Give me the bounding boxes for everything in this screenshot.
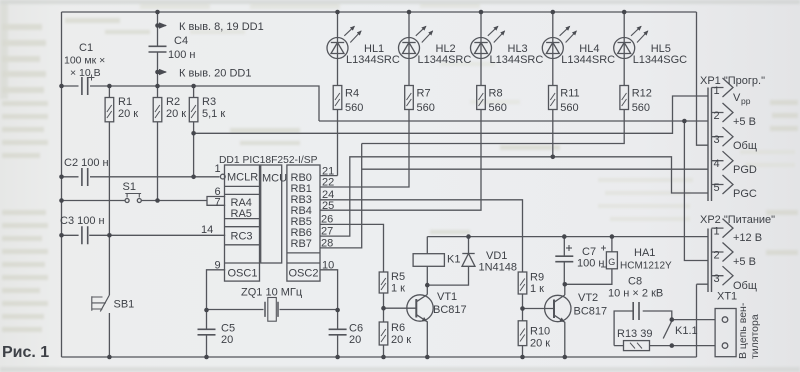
svg-text:100 н: 100 н [168, 49, 195, 61]
wire HL3 column [480, 12, 482, 86]
svg-text:RC3: RC3 [231, 231, 253, 243]
node C3 row junctions [59, 233, 64, 238]
svg-text:560: 560 [632, 102, 650, 114]
node +12V rail junctions [466, 234, 471, 239]
resistor R8 [477, 86, 486, 110]
connector XP1 pin5 [712, 175, 734, 194]
resistor R4 [333, 86, 342, 110]
svg-text:PGD: PGD [733, 164, 757, 176]
wire branch to pins 8,19 DD1 [158, 25, 167, 27]
node C2 row junctions [59, 175, 64, 180]
wire C7 top [563, 237, 565, 256]
svg-text:R9: R9 [530, 272, 544, 284]
wire C2 row / MCLR row [62, 176, 220, 178]
svg-text:28: 28 [321, 238, 333, 250]
svg-text:560: 560 [489, 102, 507, 114]
wire PGC net pin27 riser and run to XP1 pin5 [320, 157, 708, 236]
svg-text:HA1: HA1 [634, 247, 655, 259]
resistor R12 [620, 86, 629, 110]
wire Общ right vertical from top rail to XP1 pin3 [697, 12, 709, 145]
svg-text:R13 39: R13 39 [617, 328, 652, 340]
wire branch to pin 20 DD1 [158, 71, 167, 73]
svg-text:1: 1 [714, 226, 720, 238]
wire R2 column [157, 86, 159, 201]
resistor R9 [518, 272, 527, 294]
transistor VT1 [407, 295, 433, 322]
svg-text:R6: R6 [391, 322, 405, 334]
svg-text:22: 22 [322, 177, 334, 189]
svg-text:SB1: SB1 [114, 299, 135, 311]
svg-text:BC817: BC817 [574, 306, 608, 318]
svg-text:100 мк ×: 100 мк × [64, 55, 105, 67]
svg-text:L1344SRC: L1344SRC [561, 54, 615, 66]
LED HL4 [542, 26, 576, 58]
wire pin26 to R5 column [320, 224, 384, 272]
wire +V row y86 with C1,R1,R2,R3 taps, jog to +5V line [62, 86, 320, 121]
svg-text:27: 27 [321, 226, 333, 238]
wire R4 bottom to pin21 [337, 110, 339, 176]
wire VT2 base [523, 308, 555, 310]
svg-text:L1344SRC: L1344SRC [418, 54, 472, 66]
svg-text:XP2 "Питание": XP2 "Питание" [700, 214, 775, 226]
svg-text:RB7: RB7 [291, 238, 312, 250]
wire K1.1 upper contact to XT1 [672, 319, 715, 321]
svg-text:L1344SGC: L1344SGC [633, 54, 687, 66]
wire R5 R6 base node [383, 293, 385, 322]
svg-text:R7: R7 [417, 88, 431, 100]
svg-text:1 к: 1 к [530, 283, 544, 295]
svg-text:C2 100 н: C2 100 н [64, 157, 109, 169]
relay contact K1.1 [663, 321, 672, 339]
connector XP2 pin1 [712, 219, 734, 238]
svg-text:25: 25 [322, 200, 334, 212]
node VT2 collector C7 HA1 [563, 282, 568, 287]
svg-text:20: 20 [221, 334, 233, 346]
svg-text:7: 7 [215, 197, 221, 209]
svg-text:HCM1212Y: HCM1212Y [620, 261, 672, 272]
svg-text:14: 14 [201, 224, 213, 236]
svg-text:MCLR: MCLR [227, 172, 258, 184]
node K1.1 upper contact [670, 317, 675, 322]
svg-text:2: 2 [714, 250, 720, 262]
svg-text:OSC2: OSC2 [289, 268, 319, 280]
svg-text:S1: S1 [123, 181, 136, 193]
capacitor C6 [329, 329, 347, 335]
svg-text:K1: K1 [447, 254, 460, 266]
resistor R7 [405, 86, 414, 110]
svg-text:Общ: Общ [733, 140, 757, 152]
wire HL5 column [623, 12, 625, 86]
wire R6 bottom [383, 345, 385, 357]
svg-text:3: 3 [714, 273, 720, 285]
svg-text:G: G [608, 257, 615, 267]
wire K1.1 lower contact to XT1 [672, 345, 715, 347]
resistor R10 [518, 321, 527, 346]
wire top ground rail [62, 11, 697, 13]
resistor R11 [549, 86, 558, 110]
wire Vpp line from R3 to XP1 pin1 [194, 96, 708, 133]
svg-text:Рис. 1: Рис. 1 [2, 344, 49, 361]
wire OSC1 pin9 to crystal and C5 [207, 270, 226, 330]
svg-text:C1: C1 [79, 42, 93, 54]
svg-text:560: 560 [560, 102, 578, 114]
wire C4 column [157, 12, 159, 46]
wire PGD net pin28 riser and run to XP1 pin4 [320, 144, 708, 248]
IC DD1 left pin-field column [225, 165, 260, 281]
wire VT2 emitter down [563, 322, 566, 357]
capacitor C5 [198, 329, 216, 335]
svg-text:C8: C8 [628, 276, 642, 288]
svg-text:L1344SRC: L1344SRC [490, 54, 544, 66]
wire K1 bottom to VT1 collector [426, 266, 428, 294]
node +5V to XP2 branch [682, 119, 687, 124]
svg-text:4: 4 [714, 158, 720, 170]
svg-text:560: 560 [345, 102, 363, 114]
svg-text:20 к: 20 к [391, 334, 411, 346]
wire R11 bottom to PGC junction [552, 110, 554, 157]
connector XP1 bars [708, 88, 712, 202]
resistor R6 [379, 322, 388, 345]
wire S1 row from rail to chip pins 6,7 bracket [62, 200, 208, 202]
svg-text:XT1: XT1 [717, 291, 737, 303]
svg-text:560: 560 [417, 102, 435, 114]
svg-text:R3: R3 [202, 96, 216, 108]
svg-text:R12: R12 [632, 88, 652, 100]
buzzer HA1 [601, 246, 617, 269]
wire bottom rail [62, 356, 697, 358]
wire VD1 bottom row [427, 266, 468, 285]
svg-text:V: V [733, 92, 741, 104]
LED HL3 [471, 26, 505, 58]
svg-text:1: 1 [215, 163, 221, 175]
LED HL5 [614, 26, 648, 58]
IC DD1 right pin-field column RB0-RB7 OSC2 [287, 165, 320, 281]
svg-text:VD1: VD1 [486, 250, 507, 262]
svg-text:К выв. 20 DD1: К выв. 20 DD1 [179, 68, 251, 80]
node C4 column taps [155, 23, 160, 28]
resistor R13 [624, 341, 650, 351]
svg-text:+5 В: +5 В [733, 116, 756, 128]
wire VT1 emitter down [425, 321, 428, 357]
connector XP2 pin3 [712, 266, 734, 285]
resistor R2 [153, 98, 162, 122]
node S1 row junctions [59, 198, 64, 203]
svg-text:R11: R11 [560, 88, 579, 100]
wire C7 bottom node row [564, 262, 612, 285]
wire left rail [61, 12, 63, 357]
svg-text:2: 2 [714, 110, 720, 122]
capacitor C4 [149, 46, 167, 52]
svg-text:R4: R4 [345, 88, 359, 100]
svg-text:R8: R8 [489, 88, 503, 100]
svg-text:20: 20 [349, 334, 361, 346]
wire R3 column [193, 86, 195, 177]
svg-text:5,1 к: 5,1 к [202, 108, 225, 120]
wire +5V line to XP1 pin2 [319, 120, 708, 122]
wire R1 column [108, 86, 110, 295]
connector XP2 bars [708, 229, 712, 293]
svg-text:тилятора: тилятора [749, 314, 761, 359]
wire XP2 pin3 Общ down to bottom rail [697, 284, 709, 357]
wire +5V branch down to XP2 pin2 [684, 121, 708, 261]
LED HL2 [399, 26, 433, 58]
svg-text:100 н: 100 н [577, 258, 604, 270]
svg-text:VT1: VT1 [437, 291, 457, 303]
svg-text:В цепь вен-: В цепь вен- [737, 302, 749, 359]
wire VD1 top [468, 237, 470, 254]
svg-text:C4: C4 [174, 35, 188, 47]
wire SB1 column bottom [108, 313, 110, 357]
svg-text:+12 В: +12 В [733, 232, 762, 244]
node VD1 K1 bottom junction [425, 283, 430, 288]
svg-text:DD1 PIC18F252-I/SP: DD1 PIC18F252-I/SP [219, 155, 318, 166]
svg-text:10: 10 [322, 260, 334, 272]
transistor VT2 [545, 295, 571, 322]
svg-text:10 н × 2 кВ: 10 н × 2 кВ [608, 288, 663, 300]
resistor R3 [189, 98, 198, 122]
node bottom rail junctions [107, 355, 112, 360]
wire HL4 column [552, 12, 554, 86]
wire RA4 RA5 bracket [207, 197, 225, 206]
wire R12 bottom left run [362, 110, 625, 144]
wire VT2 collector up to C7 HA1 node [564, 284, 566, 295]
wire HA1 top [611, 237, 613, 252]
wire VT1 base [384, 307, 417, 309]
switch S1 [125, 194, 141, 203]
relay coil K1 [413, 254, 444, 267]
svg-text:20 к: 20 к [118, 108, 138, 120]
svg-text:9: 9 [215, 260, 221, 272]
svg-text:20 к: 20 к [166, 108, 186, 120]
IC DD1 MCLR inversion bubble [220, 174, 225, 179]
svg-text:R5: R5 [391, 271, 405, 283]
crystal ZQ1 [265, 298, 278, 322]
connector XP2 pin2 [712, 243, 734, 262]
svg-text:1N4148: 1N4148 [479, 262, 518, 274]
wire R13 row to contacts [614, 345, 672, 347]
capacitor C3 [82, 226, 88, 244]
node VT2 base [520, 306, 525, 311]
node Vpp R3 junction [191, 131, 196, 136]
svg-text:26: 26 [321, 214, 333, 226]
svg-text:C7: C7 [582, 246, 596, 258]
wire R7 bottom to pin22 [320, 110, 409, 188]
wire K1 top [426, 237, 428, 254]
svg-text:PGC: PGC [733, 188, 757, 200]
svg-text:VT2: VT2 [578, 292, 598, 304]
connector XP1 pin3 [712, 127, 734, 146]
svg-text:5: 5 [714, 182, 720, 194]
wire R8 bottom to pin25 [320, 110, 481, 211]
svg-text:× 10 В: × 10 В [70, 67, 101, 79]
capacitor C1 [82, 75, 95, 96]
svg-text:+5 В: +5 В [733, 256, 756, 268]
wire R10 bottom [522, 346, 524, 357]
svg-text:pp: pp [741, 96, 751, 106]
node top rail junctions [155, 10, 160, 15]
svg-text:3: 3 [714, 134, 720, 146]
svg-text:L1344SRC: L1344SRC [346, 54, 400, 66]
wire ZQ1 row [207, 309, 338, 311]
svg-text:OSC1: OSC1 [228, 268, 258, 280]
wire C8 loop top [614, 311, 672, 346]
push button SB1 [92, 295, 110, 312]
svg-text:1 к: 1 к [391, 283, 405, 295]
wire HL2 column [408, 12, 410, 86]
capacitor C2 [82, 168, 88, 186]
svg-text:R2: R2 [166, 96, 180, 108]
svg-text:C6: C6 [349, 323, 363, 335]
wire pin24 to R9 column VT2 base [320, 200, 523, 272]
node K1.1 lower contact [670, 343, 675, 348]
wire C6 bottom [337, 335, 339, 357]
node y86 row junctions [59, 84, 64, 89]
wire pin21 stub [320, 175, 338, 177]
svg-text:K1.1: K1.1 [675, 325, 698, 337]
wire R9 R10 base node [522, 294, 524, 321]
svg-text:20 к: 20 к [530, 338, 550, 350]
svg-text:RA5: RA5 [231, 208, 252, 220]
resistor R1 [105, 98, 114, 122]
capacitor C8 [633, 302, 639, 320]
svg-text:C5: C5 [221, 323, 235, 335]
svg-text:К выв. 8, 19 DD1: К выв. 8, 19 DD1 [179, 21, 264, 33]
connector XP1 pin1 [712, 78, 734, 97]
wire +12V rail [427, 236, 708, 238]
svg-text:ZQ1 10 МГц: ZQ1 10 МГц [241, 287, 303, 299]
svg-text:1: 1 [714, 85, 720, 97]
diode VD1 [462, 254, 475, 267]
svg-text:R1: R1 [118, 96, 132, 108]
capacitor C7 [555, 256, 573, 262]
node PGC R11 junction [551, 155, 556, 160]
wire C3 row / RC3 pin14 row [62, 234, 226, 236]
connector XP1 pin2 [712, 103, 734, 122]
svg-text:R10: R10 [530, 326, 550, 338]
svg-text:C3 100 н: C3 100 н [60, 215, 105, 227]
svg-text:XP1 "Прогр.": XP1 "Прогр." [700, 75, 765, 87]
terminal block XT1 [715, 309, 736, 357]
LED HL1 [327, 26, 361, 58]
svg-text:MCU: MCU [262, 173, 287, 185]
connector XP1 pin4 [712, 151, 734, 170]
IC DD1 middle box MCU [261, 165, 282, 263]
wire C5 bottom [206, 335, 208, 357]
resistor R5 [379, 272, 388, 293]
svg-text:BC817: BC817 [433, 304, 467, 316]
node ZQ1 row junctions [204, 308, 209, 313]
wire OSC2 pin10 to crystal and C6 [320, 270, 338, 330]
node VT1 base [381, 306, 386, 311]
wire HL1 column [337, 12, 339, 86]
